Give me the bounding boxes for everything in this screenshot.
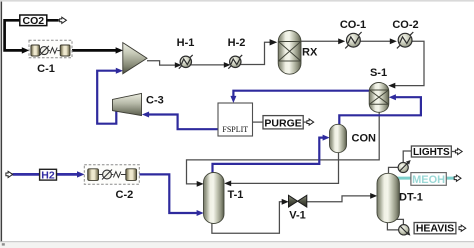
mixer B1	[123, 43, 147, 74]
svg-text:S-1: S-1	[370, 67, 387, 79]
wire C-2 outlet to T-1 bottom feed (navy)	[139, 174, 198, 213]
svg-text:C-3: C-3	[146, 94, 164, 106]
condenser circle on DT-1	[398, 160, 411, 173]
svg-text:H2: H2	[41, 170, 55, 182]
arrowhead into V-1	[282, 199, 289, 205]
arrowhead into C-2	[77, 171, 85, 177]
arrowhead into T-1 right	[224, 181, 231, 187]
wire CON vapor to S-1 (navy)	[339, 97, 421, 124]
product connector arrow MEOH	[454, 175, 461, 181]
arrowhead into DT-1	[370, 193, 377, 199]
wire recycle C-3 outlet to mixer (navy)	[97, 71, 116, 124]
svg-text:CON: CON	[352, 133, 377, 145]
splitter FSPLIT	[218, 103, 253, 136]
arrowhead into T-1 bottom left	[197, 210, 204, 216]
wire reboiler return to DT-1	[387, 222, 398, 230]
arrowhead into H-1	[175, 62, 182, 68]
wire S-1 vapor to FSPLIT (navy)	[233, 91, 369, 98]
wire T-1 overhead to CON (navy)	[213, 138, 325, 173]
wire DT-1 bottoms to reboiler circle	[391, 219, 404, 224]
compressor C-3	[113, 93, 142, 115]
stream label HEAVIS	[414, 223, 456, 235]
svg-text:T-1: T-1	[228, 189, 244, 201]
svg-text:C-1: C-1	[37, 63, 55, 75]
wire H2 feed line through box to C-2 (navy thick)	[13, 173, 80, 176]
arrowhead into CO-2	[390, 38, 397, 44]
wire H-1 to H-2	[191, 64, 226, 66]
wire MEOH product (cyan)	[396, 177, 454, 180]
cooler CO-2	[397, 32, 413, 48]
product connector arrow HEAVIS	[459, 225, 466, 231]
svg-text:CO2: CO2	[23, 15, 45, 27]
stream label MEOH	[411, 173, 446, 186]
svg-text:V-1: V-1	[289, 209, 306, 221]
svg-text:HEAVIS: HEAVIS	[416, 223, 454, 235]
multistage compressor C-1	[29, 40, 72, 58]
feed connector arrow CO2	[60, 17, 67, 23]
wire FSPLIT recycle to C-3 (navy)	[148, 115, 218, 130]
svg-text:H-1: H-1	[177, 37, 195, 49]
svg-text:CO-1: CO-1	[340, 19, 366, 31]
arrowhead into mixer bottom	[116, 68, 123, 74]
column T-1	[204, 173, 225, 224]
arrowhead into FSPLIT top	[230, 96, 236, 103]
arrowhead into CO-1	[338, 38, 345, 44]
svg-text:DT-1: DT-1	[399, 192, 423, 204]
arrowhead into S-1 top	[388, 83, 395, 89]
svg-text:H-2: H-2	[228, 37, 246, 49]
wire RX to CO-1	[301, 40, 339, 42]
wire T-1 bottoms to valve V-1	[212, 202, 284, 234]
wire mixer outlet to H-1	[147, 61, 177, 65]
arrowhead into S-1 right	[389, 94, 396, 100]
wire H-2 to reactor RX	[240, 42, 271, 64]
svg-text:MEOH: MEOH	[412, 174, 445, 186]
wire CON liquid to T-1 right feed	[230, 153, 339, 184]
wire condenser to LIGHTS	[403, 151, 411, 163]
wire S-1 liquid to T-1 left feed	[187, 112, 380, 184]
svg-text:CO-2: CO-2	[392, 19, 418, 31]
wire DT-1 overhead to condenser circle	[389, 167, 399, 174]
cooler CO-1	[345, 32, 361, 48]
wire CO-1 to CO-2	[360, 40, 391, 42]
left window border	[1, 2, 2, 242]
heater H-2	[228, 55, 242, 69]
bottom divider line	[0, 241, 474, 242]
heater H-1	[179, 55, 193, 69]
product connector arrow PURGE	[307, 119, 314, 125]
arrowhead into C-1	[22, 47, 29, 53]
product connector arrow LIGHTS	[455, 148, 462, 154]
svg-text:RX: RX	[302, 47, 318, 59]
wire C-1 to mixer B1	[72, 49, 118, 52]
top window edge	[0, 0, 474, 2]
stream label PURGE	[263, 116, 303, 130]
arrowhead into T-1 left	[197, 181, 204, 187]
valve V-1	[289, 195, 307, 207]
arrowhead into C-3	[142, 112, 149, 118]
stream label H2	[40, 169, 57, 181]
arrowhead into CON	[323, 135, 330, 141]
wire CO-2 to separator S-1	[394, 41, 424, 85]
separator S-1	[369, 83, 389, 113]
svg-text:FSPLIT: FSPLIT	[222, 125, 248, 134]
reboiler circle on DT-1	[399, 225, 411, 236]
wire V-1 to DT-1 feed	[307, 196, 372, 202]
wire CO2 feed: hollow arrow tail to box and down to C-1	[5, 20, 59, 50]
arrowhead into mixer top	[116, 47, 123, 53]
svg-text:PURGE: PURGE	[264, 117, 301, 129]
arrowhead into RX	[270, 39, 278, 45]
multistage compressor C-2	[84, 165, 139, 184]
arrowhead into H-2	[224, 62, 231, 68]
wire PURGE box to hollow arrow	[303, 121, 307, 123]
wire FSPLIT to PURGE	[253, 121, 264, 123]
stream label LIGHTS	[411, 146, 451, 158]
feed connector arrow H2	[6, 171, 13, 177]
wire LIGHTS box to hollow arrow	[451, 151, 455, 153]
svg-text:LIGHTS: LIGHTS	[413, 147, 450, 158]
flash CON	[330, 124, 347, 152]
bottom strip	[0, 242, 474, 248]
stream label CO2	[20, 15, 47, 27]
column DT-1	[377, 173, 399, 222]
reactor RX	[278, 31, 301, 75]
svg-text:C-2: C-2	[116, 189, 134, 201]
